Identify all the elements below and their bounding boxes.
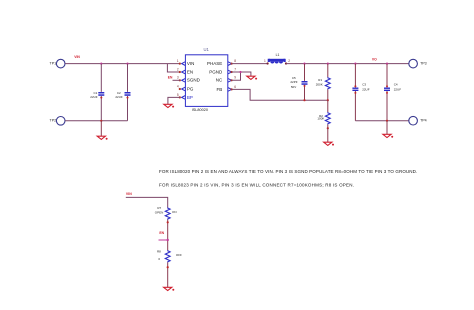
wire C1 branch	[100, 64, 102, 121]
wire SGND stub	[173, 79, 180, 81]
ground R2	[324, 142, 334, 145]
wire ground drop left	[100, 121, 102, 136]
svg-text:FOR ISL8023 PIN 2 IS VIN, PIN: FOR ISL8023 PIN 2 IS VIN, PIN 3 IS EN WI…	[159, 182, 354, 187]
wire PGND NC loop	[232, 72, 241, 80]
test point TP2	[50, 117, 66, 126]
svg-text:PHASE: PHASE	[207, 61, 222, 66]
wire R7 to R8	[167, 220, 169, 251]
pin 2 EN	[177, 67, 193, 74]
svg-text:EN: EN	[159, 231, 164, 235]
pin 3 SGND	[177, 76, 201, 83]
resistor R1	[316, 64, 330, 101]
svg-text:6: 6	[234, 85, 236, 89]
svg-text:BP: BP	[187, 95, 193, 100]
svg-text:VIN: VIN	[74, 55, 80, 59]
svg-text:R8: R8	[157, 249, 161, 253]
pin 7 PGND	[209, 67, 236, 74]
svg-text:R7: R7	[157, 206, 161, 210]
pin 5 BP	[177, 93, 193, 100]
junction C4 top	[386, 63, 388, 65]
svg-text:EN: EN	[187, 69, 193, 74]
capacitor C3	[352, 83, 369, 94]
test point TP3	[409, 59, 427, 68]
svg-text:22UF: 22UF	[115, 95, 123, 99]
ground EN divider	[164, 287, 175, 290]
capacitor C5	[290, 76, 307, 89]
junction R7 bottom	[167, 221, 169, 223]
svg-text:TP3: TP3	[420, 62, 427, 66]
svg-text:SGND: SGND	[187, 78, 201, 83]
wire top-left rail VIN	[65, 63, 179, 65]
svg-text:TP2: TP2	[50, 119, 57, 123]
svg-text:22UF: 22UF	[90, 95, 98, 99]
wire R8 to ground	[167, 262, 169, 287]
wire C5 branch	[304, 64, 306, 101]
svg-text:PG: PG	[187, 86, 194, 91]
svg-text:8: 8	[234, 59, 236, 63]
svg-text:FOR ISL80020 PIN 2 IS EN AND A: FOR ISL80020 PIN 2 IS EN AND ALWAYS TIE …	[159, 169, 417, 174]
ground output	[383, 134, 393, 137]
svg-text:R1: R1	[318, 78, 322, 82]
capacitor C2	[115, 91, 130, 99]
junction R2 bottom	[327, 127, 329, 129]
svg-text:200K: 200K	[316, 82, 323, 86]
test point TP1	[50, 59, 66, 68]
svg-text:VIN: VIN	[187, 61, 195, 66]
svg-text:U1: U1	[204, 47, 210, 52]
junction C2 top	[126, 63, 128, 65]
svg-text:OPEN: OPEN	[155, 210, 164, 214]
svg-text:3: 3	[177, 76, 179, 80]
svg-text:2: 2	[177, 67, 179, 71]
pin 9 NC	[216, 76, 236, 83]
svg-text:7: 7	[234, 67, 236, 71]
pin 8 PHASE	[207, 59, 236, 66]
svg-text:VIN: VIN	[126, 192, 132, 196]
junction C5 bottom	[303, 99, 305, 101]
svg-text:TP1: TP1	[50, 62, 57, 66]
capacitor C1	[90, 91, 104, 99]
wire EN stub	[159, 239, 168, 241]
junction C5 top	[303, 63, 305, 65]
junction R1 top	[327, 63, 329, 65]
ground left input	[97, 136, 107, 140]
test point TP4	[409, 116, 427, 125]
wire R2 to ground	[327, 128, 329, 142]
junction C4 bottom	[386, 120, 388, 122]
wire FB net	[232, 89, 328, 100]
junction PGND corner	[239, 71, 241, 73]
junction C1 top	[100, 63, 102, 65]
svg-text:2: 2	[288, 59, 290, 63]
wire bottom-left rail	[65, 120, 127, 122]
ground PGND	[247, 76, 257, 79]
wire ground drop right	[386, 121, 388, 135]
svg-text:L1: L1	[276, 53, 280, 57]
svg-text:TP4: TP4	[420, 119, 427, 123]
pin 6 FB	[217, 85, 237, 92]
wire C2 branch	[127, 64, 129, 121]
svg-text:PGND: PGND	[209, 69, 223, 74]
junction EN stub	[167, 239, 169, 241]
junction R8 bottom	[167, 266, 169, 268]
svg-text:ON: ON	[172, 210, 177, 214]
wire PGND ground spur	[241, 72, 251, 76]
svg-text:ISL80020: ISL80020	[192, 108, 208, 112]
svg-text:C4: C4	[394, 83, 398, 87]
svg-text:FB: FB	[217, 87, 223, 92]
svg-text:22UF: 22UF	[362, 87, 370, 91]
svg-text:VO: VO	[372, 58, 377, 62]
wire VO rail	[286, 63, 409, 65]
svg-text:1: 1	[177, 59, 179, 63]
capacitor C4	[384, 83, 401, 94]
wire BP to ground	[168, 97, 180, 104]
wire C4 branch	[386, 64, 388, 121]
svg-text:EN: EN	[168, 76, 173, 80]
resistor R2	[317, 100, 330, 128]
op-amp U1 ISL80020 body	[185, 47, 227, 112]
svg-text:9: 9	[234, 76, 236, 80]
resistor R8	[157, 249, 182, 262]
svg-text:NC: NC	[216, 78, 223, 83]
pin 4 PG	[177, 84, 194, 91]
svg-text:1: 1	[264, 59, 266, 63]
svg-text:22PF: 22PF	[290, 80, 297, 84]
svg-text:4: 4	[177, 84, 179, 88]
ground BP	[164, 104, 174, 107]
svg-text:22UF: 22UF	[394, 87, 402, 91]
wire PHASE to L1	[232, 63, 268, 65]
svg-text:OFF: OFF	[176, 253, 182, 257]
junction C1 bottom rail	[100, 120, 102, 122]
svg-text:100K: 100K	[317, 117, 324, 121]
wire EN branch	[167, 64, 179, 72]
svg-text:50V: 50V	[291, 85, 296, 89]
wire C3 branch	[354, 64, 356, 121]
wire VIN to R7	[126, 197, 168, 207]
inductor L1	[264, 53, 290, 64]
pin 1 VIN	[177, 59, 195, 66]
resistor R7	[155, 206, 177, 220]
junction FB R1 R2	[327, 99, 329, 101]
svg-text:5: 5	[177, 93, 179, 97]
svg-text:C3: C3	[362, 83, 366, 87]
wire bottom-right rail	[355, 120, 408, 122]
junction C3 top	[354, 63, 356, 65]
